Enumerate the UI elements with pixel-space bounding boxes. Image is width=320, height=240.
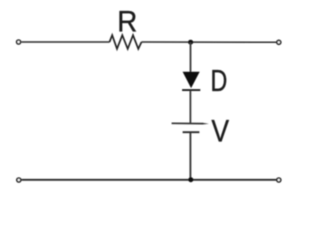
svg-text:D: D bbox=[211, 63, 228, 98]
wire top rail left segment bbox=[21, 41, 109, 43]
diode D cathode bar bbox=[182, 89, 200, 91]
wire top rail right segment bbox=[142, 41, 277, 43]
wire bottom rail bbox=[22, 179, 277, 181]
terminal top-left bbox=[17, 40, 21, 44]
battery V negative plate (short) bbox=[183, 131, 200, 133]
terminal bottom-left bbox=[17, 178, 21, 182]
node bottom junction bbox=[188, 177, 193, 182]
terminal top-right bbox=[277, 40, 281, 44]
wire battery to bottom rail bbox=[189, 133, 191, 180]
wire junction to diode bbox=[190, 42, 192, 72]
resistor R bbox=[110, 35, 142, 49]
svg-text:R: R bbox=[117, 6, 137, 39]
diode D anode triangle bbox=[183, 72, 199, 88]
node top junction bbox=[188, 40, 193, 45]
wire diode to battery bbox=[189, 91, 191, 124]
svg-text:V: V bbox=[211, 115, 229, 150]
terminal bottom-right bbox=[277, 178, 281, 182]
battery V positive plate (long) bbox=[172, 122, 203, 124]
